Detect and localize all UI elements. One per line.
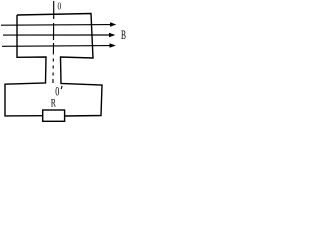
svg-text:0: 0 bbox=[58, 2, 62, 13]
svg-text:R: R bbox=[51, 97, 56, 110]
svg-text:0: 0 bbox=[55, 84, 59, 98]
svg-text:B: B bbox=[121, 28, 126, 42]
